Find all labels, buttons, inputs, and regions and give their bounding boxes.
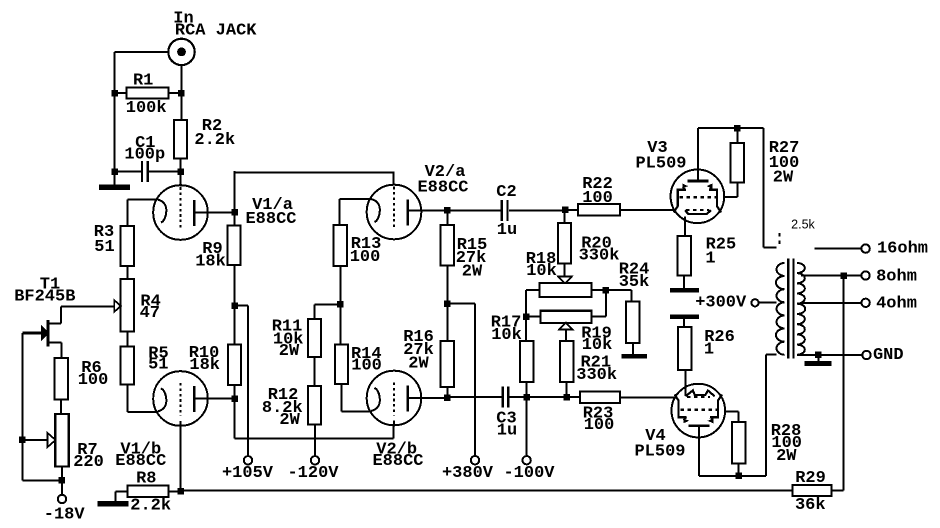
svg-text:1: 1 xyxy=(705,250,715,269)
svg-text:R29: R29 xyxy=(795,469,826,488)
svg-text:2.2k: 2.2k xyxy=(194,131,235,150)
svg-text:2W: 2W xyxy=(776,447,797,466)
svg-text:-100V: -100V xyxy=(503,464,555,483)
svg-text:330k: 330k xyxy=(579,247,620,266)
svg-text:100p: 100p xyxy=(124,146,165,165)
svg-text:2W: 2W xyxy=(408,355,429,374)
svg-text:10k: 10k xyxy=(491,326,522,345)
svg-text:100: 100 xyxy=(584,416,615,435)
svg-text:10k: 10k xyxy=(582,336,613,355)
svg-text:+300V: +300V xyxy=(695,294,747,313)
svg-text:1u: 1u xyxy=(497,422,517,441)
svg-text:18k: 18k xyxy=(195,253,226,272)
svg-text:330k: 330k xyxy=(576,366,617,385)
svg-text:4ohm: 4ohm xyxy=(876,295,917,314)
svg-text:100: 100 xyxy=(350,248,381,267)
svg-text:10k: 10k xyxy=(526,262,557,281)
svg-text:35k: 35k xyxy=(619,273,650,292)
svg-text:GND: GND xyxy=(873,346,904,365)
svg-text:100: 100 xyxy=(351,357,382,376)
svg-text:51: 51 xyxy=(148,356,168,375)
svg-text:C2: C2 xyxy=(496,183,516,202)
svg-text:100k: 100k xyxy=(126,99,167,118)
svg-text:PL509: PL509 xyxy=(634,443,685,462)
svg-text:RCA JACK: RCA JACK xyxy=(175,22,257,41)
svg-text:18k: 18k xyxy=(189,356,220,375)
svg-text:100: 100 xyxy=(78,371,109,390)
svg-text:1u: 1u xyxy=(497,221,517,240)
svg-text:51: 51 xyxy=(94,238,114,257)
svg-text:E88CC: E88CC xyxy=(115,452,166,471)
svg-text:47: 47 xyxy=(140,304,160,323)
svg-text:BF245B: BF245B xyxy=(14,288,75,307)
svg-text:R8: R8 xyxy=(136,470,156,489)
svg-text:PL509: PL509 xyxy=(635,155,686,174)
svg-text:E88CC: E88CC xyxy=(417,179,468,198)
svg-text:2.2k: 2.2k xyxy=(130,497,171,516)
svg-text:-120V: -120V xyxy=(287,464,339,483)
svg-text:-18V: -18V xyxy=(44,506,86,525)
svg-text:+380V: +380V xyxy=(442,464,494,483)
svg-text:2W: 2W xyxy=(462,263,483,282)
svg-text:R1: R1 xyxy=(133,72,153,91)
svg-text:8ohm: 8ohm xyxy=(876,268,917,287)
svg-text:E88CC: E88CC xyxy=(372,452,423,471)
svg-text:100: 100 xyxy=(582,189,613,208)
svg-text:1: 1 xyxy=(704,341,714,360)
svg-text:36k: 36k xyxy=(795,496,826,515)
svg-text:2W: 2W xyxy=(279,411,300,430)
svg-text:2.5k: 2.5k xyxy=(791,218,815,232)
svg-text:2W: 2W xyxy=(773,169,794,188)
svg-text:E88CC: E88CC xyxy=(245,210,296,229)
svg-text:16ohm: 16ohm xyxy=(877,240,928,259)
svg-text:220: 220 xyxy=(73,453,104,472)
svg-text:+105V: +105V xyxy=(222,464,274,483)
svg-text:2W: 2W xyxy=(279,342,300,361)
